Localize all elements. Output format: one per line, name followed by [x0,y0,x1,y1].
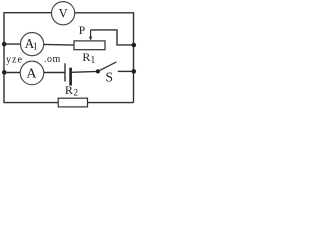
svg-text:A: A [26,67,37,82]
node: right rail junction (switch wire) [132,69,137,74]
wire: A1 to rheostat R1 [44,43,74,46]
svg-text:V: V [59,7,68,21]
svg-text:1: 1 [90,55,95,66]
wire: A to battery [44,72,65,74]
battery short plate (-) [69,68,72,86]
svg-text:P: P [79,25,85,37]
wire: left rail to A1 [4,43,21,45]
wire: bottom edge [3,102,133,104]
svg-text:R: R [65,83,73,97]
label R2 [65,83,78,98]
svg-text:.om: .om [44,54,61,65]
wiper P arrow [89,30,92,41]
svg-text:1: 1 [33,41,38,52]
ammeter A [20,61,44,85]
node: left rail junction (ammeter A1 branch) [2,42,7,47]
wire: outer loop left rail [3,13,5,103]
svg-text:R: R [82,50,90,64]
svg-text:S: S [106,69,114,84]
wire: battery to switch [72,70,98,73]
resistor R2 body [58,98,87,107]
wire: left rail to A [4,72,20,74]
wire: switch to right rail [118,70,134,72]
voltmeter U-V [52,2,75,25]
switch S [96,62,117,85]
ammeter A1 [20,33,43,56]
battery long plate (+) [64,63,66,81]
node: left rail junction (battery branch) [2,70,7,75]
rheostat R1 body [74,41,105,50]
svg-text:yze: yze [6,55,23,66]
wire: top edge (left of voltmeter) [3,12,51,14]
wire: right rail [133,13,135,103]
svg-text:2: 2 [74,88,79,98]
label R1 [82,50,95,66]
node: right rail junction (wiper wire) [132,43,137,48]
wire: wiper to right rail (step) [91,30,134,45]
wire: top edge (right of voltmeter) [75,12,134,14]
watermark [6,54,61,66]
